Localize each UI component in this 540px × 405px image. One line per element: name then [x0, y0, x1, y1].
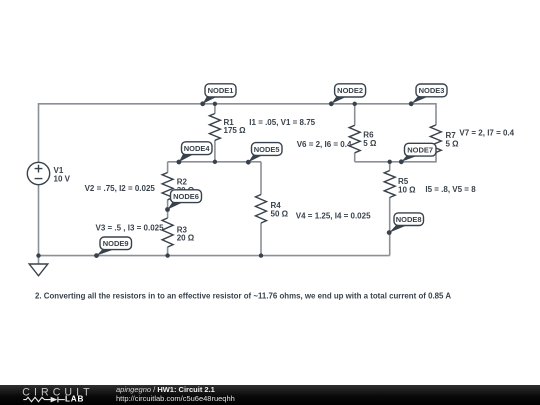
svg-text:175 Ω: 175 Ω: [224, 126, 247, 135]
svg-text:NODE4: NODE4: [184, 144, 211, 153]
svg-text:10 V: 10 V: [54, 175, 71, 184]
svg-text:V4 = 1.25, I4 = 0.025: V4 = 1.25, I4 = 0.025: [296, 212, 371, 221]
svg-text:5 Ω: 5 Ω: [446, 140, 460, 149]
svg-text:5 Ω: 5 Ω: [363, 139, 377, 148]
svg-text:I1 = .05, V1 = 8.75: I1 = .05, V1 = 8.75: [249, 118, 315, 127]
svg-text:I5 = .8, V5 = 8: I5 = .8, V5 = 8: [425, 185, 476, 194]
svg-text:NODE3: NODE3: [419, 86, 445, 95]
svg-text:NODE2: NODE2: [337, 86, 363, 95]
svg-text:V7 = 2, I7 = 0.4: V7 = 2, I7 = 0.4: [459, 129, 514, 138]
svg-text:NODE1: NODE1: [208, 86, 234, 95]
svg-text:NODE9: NODE9: [103, 239, 129, 248]
svg-text:50 Ω: 50 Ω: [271, 210, 289, 219]
svg-text:LAB: LAB: [65, 395, 84, 404]
svg-text:V6 = 2, I6 = 0.4: V6 = 2, I6 = 0.4: [297, 140, 352, 149]
svg-text:2. Converting all the resistor: 2. Converting all the resistors in to an…: [35, 291, 451, 300]
svg-text:V3 = .5 , I3 = 0.025: V3 = .5 , I3 = 0.025: [96, 224, 165, 233]
svg-text:20 Ω: 20 Ω: [177, 234, 195, 243]
svg-text:NODE5: NODE5: [254, 145, 280, 154]
svg-text:NODE8: NODE8: [396, 215, 422, 224]
svg-text:NODE6: NODE6: [173, 192, 199, 201]
svg-text:V2 = .75, I2 = 0.025: V2 = .75, I2 = 0.025: [85, 184, 156, 193]
svg-text:10 Ω: 10 Ω: [398, 185, 416, 194]
svg-text:NODE7: NODE7: [407, 146, 433, 155]
